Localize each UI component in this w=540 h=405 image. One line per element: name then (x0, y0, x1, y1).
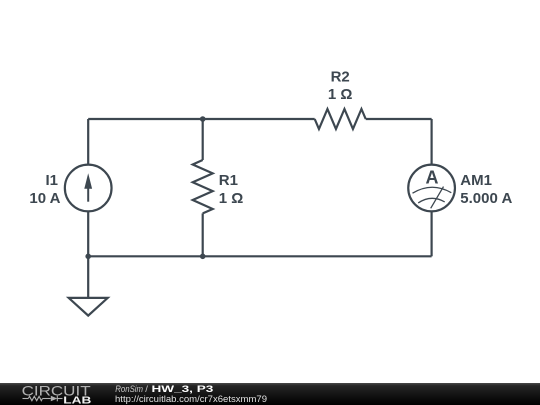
svg-text:1 Ω: 1 Ω (328, 86, 353, 103)
svg-text:http://circuitlab.com/cr7x6ets: http://circuitlab.com/cr7x6etsxmm79 (115, 394, 267, 405)
svg-text:R2: R2 (331, 68, 350, 85)
svg-text:A: A (426, 166, 439, 187)
svg-text:AM1: AM1 (460, 172, 492, 189)
svg-text:LAB: LAB (63, 396, 91, 405)
svg-text:R1: R1 (219, 172, 238, 189)
svg-text:1 Ω: 1 Ω (219, 190, 244, 207)
svg-text:5.000 A: 5.000 A (460, 190, 512, 207)
svg-text:I1: I1 (45, 172, 58, 189)
svg-text:10 A: 10 A (29, 190, 60, 207)
